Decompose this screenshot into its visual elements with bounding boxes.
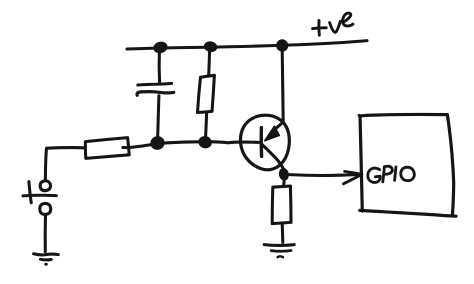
node dot on rail (left) xyxy=(153,41,168,54)
resistor R1 (vertical, top middle) xyxy=(198,50,215,141)
wire base (middle horizontal) xyxy=(123,142,260,148)
wire to GPIO xyxy=(290,173,359,177)
wire switch drop xyxy=(45,149,46,180)
node dot (cap bottom) xyxy=(150,135,166,150)
resistor R3 (vertical, collector to ground) xyxy=(272,178,291,243)
wire top +ve rail xyxy=(127,41,367,49)
ground (right) xyxy=(264,245,294,258)
ground (left) xyxy=(34,254,59,264)
transistor Q1 xyxy=(240,115,289,170)
arrowhead into GPIO xyxy=(343,171,361,183)
GPIO box xyxy=(359,114,456,216)
wire to ground (left) xyxy=(44,215,47,252)
node dot on rail (right) xyxy=(276,39,288,51)
label +ve xyxy=(313,13,353,35)
wire emitter drop (rail to transistor) xyxy=(282,50,283,122)
node dot (collector junction) xyxy=(279,168,290,181)
capacitor C1 xyxy=(137,52,174,140)
node dot (R1 bottom) xyxy=(198,136,212,149)
node dot on rail (middle) xyxy=(204,41,217,52)
resistor R2 (horizontal, base) xyxy=(47,138,129,159)
label GPIO xyxy=(368,166,415,182)
switch SW1 (push button) xyxy=(23,181,56,215)
